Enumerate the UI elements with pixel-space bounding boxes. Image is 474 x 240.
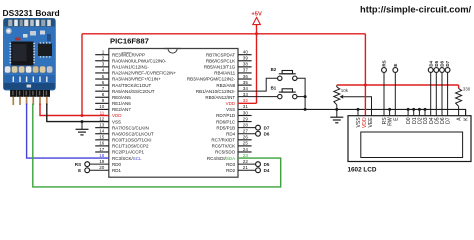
svg-text:E: E	[393, 64, 398, 67]
svg-text:VSS: VSS	[226, 107, 235, 112]
svg-text:12: 12	[99, 116, 105, 121]
svg-text:D7: D7	[446, 117, 452, 124]
svg-text:RD7/P1D: RD7/P1D	[216, 113, 236, 118]
svg-text:RB2/AN8: RB2/AN8	[216, 83, 235, 88]
svg-text:1602 LCD: 1602 LCD	[348, 166, 377, 173]
svg-text:RC1/T1OSI/CCP2: RC1/T1OSI/CCP2	[112, 144, 149, 149]
svg-text:18: 18	[99, 153, 105, 158]
svg-text:30: 30	[243, 110, 249, 115]
svg-text:VSS: VSS	[112, 119, 121, 124]
svg-text:VDD: VDD	[112, 113, 122, 118]
svg-text:11: 11	[100, 110, 105, 115]
svg-text:15: 15	[99, 135, 105, 140]
svg-text:35: 35	[243, 80, 249, 85]
svg-text:RD3: RD3	[226, 162, 235, 167]
svg-text:RA2/AN2/VREF-/CVREF/C2IN+: RA2/AN2/VREF-/CVREF/C2IN+	[112, 71, 177, 76]
svg-text:27: 27	[243, 129, 249, 134]
svg-text:RD1: RD1	[112, 168, 121, 173]
svg-text:RB7/ICSPDAT: RB7/ICSPDAT	[206, 52, 235, 57]
svg-text:13: 13	[99, 122, 105, 127]
svg-text:DS3231 Board: DS3231 Board	[3, 8, 60, 18]
svg-text:RB3/AN9/PGM/C12IN2-: RB3/AN9/PGM/C12IN2-	[187, 77, 236, 82]
svg-text:16: 16	[99, 141, 105, 146]
svg-text:38: 38	[243, 62, 249, 67]
svg-text:19: 19	[99, 159, 105, 164]
svg-text:RB0/AN12/INT: RB0/AN12/INT	[205, 95, 235, 100]
svg-text:RC5/SDO: RC5/SDO	[215, 150, 236, 155]
svg-text:23: 23	[243, 153, 249, 158]
svg-text:RS: RS	[382, 60, 387, 66]
svg-text:14: 14	[99, 129, 105, 134]
svg-text:17: 17	[99, 147, 105, 152]
svg-text:RC4/SDI/SDA: RC4/SDI/SDA	[207, 156, 235, 161]
svg-text:RD6/P1C: RD6/P1C	[216, 119, 236, 124]
svg-text:34: 34	[243, 86, 249, 91]
svg-text:RA0/AN0/ULPWU/C12IN0-: RA0/AN0/ULPWU/C12IN0-	[112, 58, 167, 63]
svg-text:VDD: VDD	[226, 101, 236, 106]
svg-text:D6: D6	[264, 131, 270, 136]
svg-text:20: 20	[99, 165, 105, 170]
svg-text:D7: D7	[264, 125, 270, 130]
svg-text:B2: B2	[271, 67, 277, 72]
svg-text:RE0/AN5: RE0/AN5	[112, 95, 131, 100]
svg-text:D4: D4	[264, 168, 270, 173]
svg-text:25: 25	[243, 141, 249, 146]
svg-text:28: 28	[243, 122, 249, 127]
svg-text:22: 22	[243, 159, 249, 164]
svg-text:RC2/P1A/CCP1: RC2/P1A/CCP1	[112, 150, 145, 155]
svg-text:RA6/OSC2/CLKOUT: RA6/OSC2/CLKOUT	[112, 131, 154, 136]
svg-text:RB1/AN10/C12IN3-: RB1/AN10/C12IN3-	[196, 89, 236, 94]
svg-text:E: E	[78, 168, 81, 173]
svg-text:http://simple-circuit.com/: http://simple-circuit.com/	[360, 4, 472, 14]
svg-text:D5: D5	[434, 60, 439, 66]
svg-text:RD5/P1B: RD5/P1B	[216, 125, 235, 130]
svg-text:B1: B1	[271, 85, 277, 90]
svg-text:36: 36	[243, 74, 249, 79]
svg-text:D7: D7	[445, 60, 450, 66]
svg-text:37: 37	[243, 68, 249, 73]
svg-text:32: 32	[243, 98, 249, 103]
svg-text:RD4: RD4	[226, 131, 235, 136]
svg-text:RA7/OSC1/CLKIN: RA7/OSC1/CLKIN	[112, 125, 149, 130]
svg-text:29: 29	[243, 116, 249, 121]
svg-text:RB4/AN11: RB4/AN11	[214, 71, 235, 76]
svg-text:RA1/AN1/C12IN1-: RA1/AN1/C12IN1-	[112, 65, 149, 70]
svg-text:RA3/AN3/VREF+/C1IN+: RA3/AN3/VREF+/C1IN+	[112, 77, 161, 82]
svg-text:D4: D4	[428, 60, 433, 66]
svg-text:RD2: RD2	[226, 168, 235, 173]
svg-text:330: 330	[463, 87, 471, 92]
svg-text:RC0/T1OSO/T1CKI: RC0/T1OSO/T1CKI	[112, 138, 152, 143]
svg-text:RD0: RD0	[112, 162, 121, 167]
svg-text:RC7/RX/DT: RC7/RX/DT	[211, 138, 235, 143]
svg-text:RC6/TX/CK: RC6/TX/CK	[212, 144, 236, 149]
svg-text:RA4/T0CKI/C1OUT: RA4/T0CKI/C1OUT	[112, 83, 152, 88]
svg-text:RB6/ICSPCLK: RB6/ICSPCLK	[206, 58, 235, 63]
svg-text:D5: D5	[264, 162, 270, 167]
svg-text:RC3/SCK/SCL: RC3/SCK/SCL	[112, 156, 142, 161]
svg-text:10: 10	[99, 104, 105, 109]
svg-text:39: 39	[243, 56, 249, 61]
svg-text:10k: 10k	[341, 88, 349, 93]
svg-text:26: 26	[243, 135, 249, 140]
svg-text:RE1/AN6: RE1/AN6	[112, 101, 131, 106]
svg-text:D6: D6	[440, 60, 445, 66]
svg-text:VEE: VEE	[368, 117, 374, 128]
svg-text:31: 31	[243, 104, 249, 109]
svg-text:PIC16F887: PIC16F887	[110, 37, 149, 46]
svg-text:RE2/AN7: RE2/AN7	[112, 107, 131, 112]
svg-text:RS: RS	[75, 162, 81, 167]
svg-text:RB5/AN13/T1G: RB5/AN13/T1G	[204, 65, 236, 70]
svg-text:40: 40	[243, 50, 249, 55]
svg-text:24: 24	[243, 147, 249, 152]
svg-text:RA5/AN4/SS/C2OUT: RA5/AN4/SS/C2OUT	[112, 89, 155, 94]
svg-text:21: 21	[243, 165, 249, 170]
